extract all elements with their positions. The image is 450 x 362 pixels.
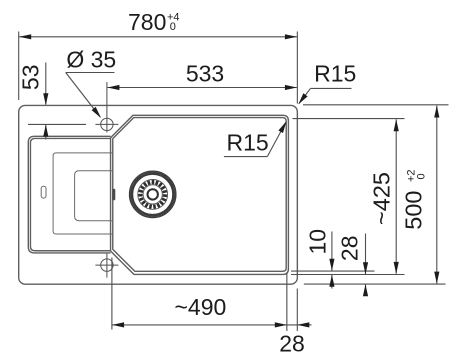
bowl outer outline <box>111 115 289 274</box>
dim line 10 upper <box>331 232 333 271</box>
svg-text:533: 533 <box>186 60 224 86</box>
ext line bowl outer bottom <box>291 274 405 276</box>
svg-text:0: 0 <box>170 21 176 33</box>
svg-text:R15: R15 <box>226 129 268 155</box>
dim line 28 bottom tail <box>298 324 312 326</box>
arrow 490 right / 28b left <box>275 322 287 327</box>
svg-text:780: 780 <box>128 9 166 35</box>
svg-text:~425: ~425 <box>369 172 395 225</box>
bowl inner outline <box>113 118 286 272</box>
arrow 490 left <box>112 322 124 327</box>
arrow 28b right <box>297 322 309 327</box>
drainboard rim inner line <box>30 138 110 250</box>
drainboard slot <box>41 186 46 198</box>
svg-text:0: 0 <box>416 173 428 179</box>
arrow 780 left <box>19 34 31 39</box>
bowl overflow mark <box>112 189 115 201</box>
leader R15 outer diagonal <box>299 88 311 103</box>
svg-text:10: 10 <box>305 229 331 255</box>
dim line 53 lower tail <box>45 125 47 140</box>
leader R15 inner diagonal <box>267 122 286 157</box>
ext line sink bottom right <box>304 283 446 285</box>
arrow 500 top <box>434 106 439 118</box>
dim line 425 <box>395 119 397 273</box>
dim line 533 <box>107 87 297 89</box>
dim line 490 / 28 bottom <box>112 324 297 326</box>
ext line 490 left <box>111 258 113 330</box>
drainboard step rectangle A <box>53 153 113 234</box>
svg-text:Ø 35: Ø 35 <box>66 46 116 72</box>
arrow 28r top <box>363 262 368 274</box>
svg-text:500: 500 <box>400 190 426 229</box>
drainboard step rectangle B <box>75 171 113 221</box>
ext line 53 horizontal <box>28 123 86 125</box>
svg-text:~490: ~490 <box>174 294 226 320</box>
tap hole bottom <box>95 254 118 278</box>
arrow R15 outer leader <box>298 93 307 104</box>
sink outer outline <box>19 105 298 284</box>
svg-text:R15: R15 <box>314 61 356 87</box>
drain strainer <box>129 171 176 218</box>
arrow 533 right <box>285 85 297 90</box>
drainboard rim outer line <box>28 136 110 253</box>
arrow 53 bottom <box>43 125 48 137</box>
arrow 425 top <box>394 119 399 131</box>
arrow 533 left <box>107 85 119 90</box>
dim line 28 right upper <box>365 234 367 275</box>
ext line 780 left <box>18 32 20 101</box>
arrow 28r bottom <box>363 284 368 296</box>
arrow R15 inner leader <box>278 121 286 133</box>
tap hole top <box>95 82 118 132</box>
arrow 425 bottom <box>394 262 399 274</box>
dim line 28 right lower tail <box>365 284 367 293</box>
dim line 780 <box>19 36 297 38</box>
leader dia35 diagonal <box>66 73 101 118</box>
svg-text:28: 28 <box>337 236 363 262</box>
dim line 53 upper <box>45 63 47 105</box>
ext line 780/533 right <box>296 32 298 104</box>
leader dia35 underline <box>66 72 115 74</box>
arrow 10 top <box>329 259 334 271</box>
ext line sink right bottom <box>296 289 298 332</box>
leader R15 inner underline <box>224 156 267 158</box>
ext line bowl top right <box>293 118 405 120</box>
ext line sink top right <box>303 104 449 106</box>
ext line bowl right bottom <box>286 273 288 332</box>
dim line 10 lower tail <box>331 275 333 289</box>
arrow 53 top <box>43 93 48 105</box>
svg-text:53: 53 <box>17 65 43 91</box>
label 500 with tolerance <box>400 169 427 229</box>
arrow 10 bottom <box>329 275 334 287</box>
arrow dia35 leader <box>92 107 101 118</box>
dim line 500 <box>436 106 438 284</box>
arrow 500 bottom <box>434 272 439 284</box>
svg-text:28: 28 <box>279 330 305 356</box>
ext line bowl inner bottom <box>291 270 375 272</box>
arrow 780 right <box>285 34 297 39</box>
leader R15 outer underline <box>311 87 352 89</box>
